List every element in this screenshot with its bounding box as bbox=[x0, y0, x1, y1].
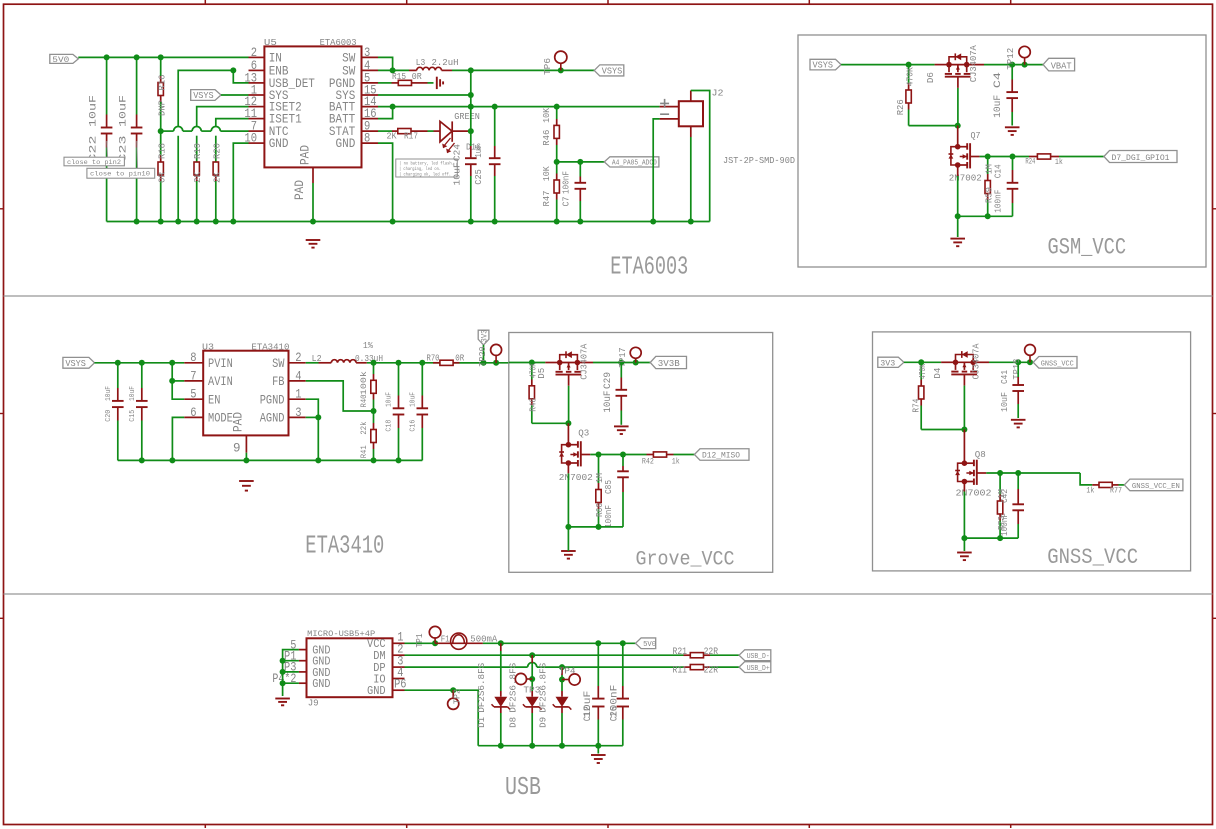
svg-text:10uF: 10uF bbox=[452, 162, 463, 186]
svg-text:3: 3 bbox=[295, 405, 301, 420]
inductor L3 bbox=[409, 67, 452, 70]
tvs diode D8 bbox=[523, 655, 542, 746]
svg-text:2.2uH: 2.2uH bbox=[432, 57, 459, 68]
net flag GNSS_VCC_EN bbox=[1124, 479, 1183, 491]
svg-text:Q8: Q8 bbox=[975, 449, 986, 460]
svg-text:100nF: 100nF bbox=[1000, 513, 1010, 536]
resistor R42 bbox=[647, 452, 695, 457]
svg-text:| no battery, led flash.: | no battery, led flash. bbox=[399, 160, 454, 166]
C7 name and value text bbox=[561, 171, 571, 207]
junction dots SW output node bbox=[371, 360, 426, 366]
LED D16 bbox=[434, 121, 471, 153]
R70 name and value text bbox=[427, 353, 465, 364]
R74 name and value text bbox=[911, 364, 928, 413]
svg-text:R20: R20 bbox=[212, 143, 222, 159]
net flag GNSS_VCC bbox=[1033, 357, 1077, 369]
svg-text:ETA3410: ETA3410 bbox=[251, 342, 289, 353]
svg-text:D5: D5 bbox=[537, 368, 547, 379]
capacitor C14 bbox=[1007, 157, 1019, 217]
wire Q3 source down bbox=[567, 463, 569, 527]
resistor R48 bbox=[529, 363, 534, 424]
svg-text:10uF: 10uF bbox=[1000, 392, 1010, 412]
svg-text:2K: 2K bbox=[212, 171, 222, 183]
R60 name and value text bbox=[595, 473, 605, 517]
svg-text:PAD: PAD bbox=[231, 412, 246, 432]
junction dot ADC divider node bbox=[554, 159, 560, 165]
svg-text:U3: U3 bbox=[202, 342, 214, 353]
U3 PAD stub and wire bbox=[245, 435, 247, 460]
C12 name and value text bbox=[582, 691, 594, 721]
wire L3 to VSYS node bbox=[452, 69, 471, 71]
C16 name and value text bbox=[409, 392, 417, 432]
svg-text:C85: C85 bbox=[604, 480, 614, 494]
svg-text:R17: R17 bbox=[404, 131, 418, 142]
svg-text:R70: R70 bbox=[427, 353, 440, 364]
svg-text:C42: C42 bbox=[1000, 489, 1010, 503]
svg-text:2K: 2K bbox=[387, 131, 397, 142]
svg-text:22k: 22k bbox=[360, 421, 369, 434]
wire Q3 source rail to gnd bbox=[567, 527, 569, 551]
capacitor C23 bbox=[131, 57, 143, 221]
wire R48 bottom to gate node bbox=[532, 422, 569, 424]
svg-text:GNSS_VCC_EN: GNSS_VCC_EN bbox=[1132, 483, 1180, 491]
C85 name and value text bbox=[604, 480, 614, 528]
R46 name and value text bbox=[542, 107, 552, 145]
svg-text:JST-2P-SMD-90D: JST-2P-SMD-90D bbox=[723, 155, 795, 166]
svg-text:TP20: TP20 bbox=[478, 347, 488, 367]
wire GND pin8 to rail bbox=[378, 143, 393, 221]
J9 right pin numbers bbox=[394, 631, 406, 692]
wire J2 minus to ground rail bbox=[653, 119, 659, 222]
junction dot R74 top bbox=[918, 359, 924, 365]
resistor R47 bbox=[554, 162, 559, 222]
junction dot DM at D8 bbox=[529, 652, 535, 658]
junction dot TP2 bbox=[450, 687, 456, 693]
wire D5 gate down to Q3 bbox=[565, 386, 571, 445]
svg-text:PAD: PAD bbox=[292, 180, 307, 200]
wire Q7 source down bbox=[957, 165, 959, 237]
wire FB to divider mid bbox=[306, 381, 377, 414]
svg-text:close to pin10: close to pin10 bbox=[90, 171, 150, 179]
ground symbol under U5 PAD bbox=[306, 239, 321, 241]
junction dot TP4 node bbox=[559, 677, 565, 683]
net flag VSYS input GSM bbox=[810, 59, 841, 70]
capacitor C24 bbox=[465, 70, 477, 221]
svg-text:100nF: 100nF bbox=[993, 190, 1003, 213]
capacitor C85 bbox=[617, 455, 629, 527]
svg-text:USB: USB bbox=[505, 772, 541, 802]
svg-text:2N7002: 2N7002 bbox=[956, 488, 992, 499]
connector J9 MICRO-USB body bbox=[307, 638, 393, 697]
svg-text:VSYS: VSYS bbox=[602, 66, 623, 76]
C41 name and value text bbox=[1000, 370, 1010, 412]
svg-text:D8: D8 bbox=[509, 717, 519, 728]
wire 3V3 to D4 source bbox=[904, 361, 941, 363]
capacitor C18 bbox=[393, 363, 405, 461]
resistor R60 bbox=[596, 455, 601, 527]
svg-text:10K: 10K bbox=[542, 107, 552, 123]
svg-text:100nF: 100nF bbox=[561, 171, 571, 194]
capacitor C12 bbox=[592, 643, 604, 745]
C25 name and value text bbox=[473, 144, 484, 184]
capacitor C20 bbox=[112, 363, 124, 461]
C18 name and value text bbox=[386, 392, 394, 432]
C29 name and value text bbox=[602, 372, 614, 413]
svg-text:1k: 1k bbox=[1086, 487, 1094, 496]
svg-text:F1: F1 bbox=[441, 635, 450, 645]
svg-text:R26: R26 bbox=[896, 99, 906, 115]
wire VSYS flag to SYS pin bbox=[221, 94, 249, 96]
net flag VSYS input mid bbox=[63, 357, 95, 369]
junction dots 3V3 node bbox=[481, 360, 500, 366]
frame column ticks bottom bbox=[205, 825, 1010, 829]
R11 name and value text bbox=[673, 666, 719, 677]
wire VSYS to PVIN bbox=[95, 362, 185, 364]
wire SW pin3 to SW pin4 net bbox=[378, 57, 396, 73]
svg-text:R18: R18 bbox=[157, 143, 167, 159]
svg-text:ETA6003: ETA6003 bbox=[610, 252, 688, 282]
svg-text:10uF: 10uF bbox=[992, 95, 1004, 118]
svg-text:A4_PA05_ADC0: A4_PA05_ADC0 bbox=[612, 159, 657, 167]
testpoint TP12 bbox=[1019, 46, 1030, 64]
C24 name and value text bbox=[452, 144, 463, 186]
svg-text:DF2S6.8FS: DF2S6.8FS bbox=[477, 663, 487, 713]
wire GND P6 to rail bbox=[405, 690, 479, 746]
resistor R40 feedback top bbox=[371, 363, 376, 411]
R15 name and value text bbox=[392, 71, 422, 82]
resistor R18 bbox=[158, 131, 163, 221]
C4 name and value text bbox=[992, 72, 1004, 118]
svg-text:TP2: TP2 bbox=[452, 689, 462, 704]
resistor R74 bbox=[919, 362, 924, 429]
wire R26 bottom to gate node bbox=[909, 125, 958, 127]
svg-text:Q3: Q3 bbox=[578, 427, 589, 438]
svg-text:CJ3407A: CJ3407A bbox=[580, 343, 590, 380]
svg-text:R40: R40 bbox=[360, 394, 369, 407]
svg-text:TP1: TP1 bbox=[415, 634, 425, 648]
R16 name and value text bbox=[157, 75, 167, 117]
U5 right pin names bbox=[329, 51, 356, 152]
svg-text:C7: C7 bbox=[561, 197, 571, 207]
ground under Q8 bbox=[957, 552, 972, 554]
svg-text:R19: R19 bbox=[193, 143, 203, 159]
capacitor C42 bbox=[1012, 473, 1024, 538]
net flag VBAT bbox=[1043, 58, 1075, 71]
J2 minus sign bbox=[660, 113, 669, 115]
mosfet Q8 2N7002 bbox=[964, 462, 974, 464]
R42 name and value text bbox=[642, 458, 680, 467]
wire gate row corner down to R77 bbox=[1080, 473, 1092, 485]
svg-text:DF2S6.8FS: DF2S6.8FS bbox=[539, 663, 549, 713]
svg-text:close to pin2: close to pin2 bbox=[67, 159, 121, 167]
section divider line 1 bbox=[4, 295, 1213, 297]
C26 name and value text bbox=[608, 685, 620, 721]
svg-text:C41: C41 bbox=[1000, 370, 1010, 384]
svg-text:2N7002: 2N7002 bbox=[559, 472, 593, 483]
wire BATT16 joins BATT14 bbox=[378, 104, 396, 119]
svg-text:2: 2 bbox=[295, 350, 301, 365]
svg-text:10K: 10K bbox=[542, 166, 552, 182]
J9 right pin stubs bbox=[393, 643, 405, 690]
svg-text:TP12: TP12 bbox=[1006, 48, 1016, 70]
svg-text:R47: R47 bbox=[542, 191, 552, 207]
svg-text:C16: C16 bbox=[409, 419, 417, 431]
J9 left pin stubs bbox=[299, 650, 307, 684]
LED behavior note box bbox=[396, 159, 458, 178]
wire 5V0 to pin IN bbox=[78, 56, 248, 58]
junction dots VBAT node bbox=[1009, 62, 1027, 68]
net flag D12_MISO bbox=[694, 449, 749, 461]
wire SYS15 to node bbox=[378, 92, 474, 98]
net flag VSYS at SYS pin bbox=[191, 90, 221, 102]
wire Q8 source down bbox=[963, 482, 965, 552]
mosfet Q7 2N7002 bbox=[958, 146, 968, 148]
GSM_VCC section box bbox=[798, 35, 1206, 267]
junction dots on BATT row bbox=[468, 104, 560, 110]
testpoint TP6 bbox=[555, 51, 567, 70]
svg-text:VBAT: VBAT bbox=[1051, 60, 1072, 71]
GNSS ground rail bbox=[961, 535, 1018, 541]
svg-text:FB: FB bbox=[272, 374, 285, 389]
U5 right pin numbers bbox=[364, 45, 377, 146]
svg-text:PGND: PGND bbox=[260, 392, 285, 407]
svg-text:7: 7 bbox=[190, 368, 196, 383]
J9 left pin names GND bbox=[312, 644, 330, 692]
ground under USB rail bbox=[591, 746, 606, 763]
wire 3V3 flag stem bbox=[483, 345, 485, 363]
C14 name and value text bbox=[993, 164, 1003, 212]
svg-text:100nF: 100nF bbox=[604, 505, 614, 528]
USB ground rail bbox=[478, 745, 623, 747]
svg-text:TP4: TP4 bbox=[559, 667, 576, 677]
wire MODE to ground rail bbox=[172, 417, 184, 460]
svg-text:DF2S6.8FS: DF2S6.8FS bbox=[509, 663, 519, 713]
svg-text:8: 8 bbox=[190, 350, 196, 365]
junction dots 3V3B node bbox=[618, 360, 638, 366]
svg-text:CJ3407A: CJ3407A bbox=[972, 343, 982, 380]
resistor R16 DNP bbox=[158, 57, 163, 131]
resistor R21 bbox=[684, 653, 740, 658]
junction dots on 5V0 rail bbox=[104, 54, 164, 60]
J2 plus sign bbox=[660, 99, 669, 108]
svg-text:CJ3407A: CJ3407A bbox=[969, 45, 979, 83]
svg-text:0R: 0R bbox=[157, 171, 167, 183]
svg-text:22R: 22R bbox=[704, 647, 719, 658]
resistor R11 bbox=[684, 665, 740, 670]
R73 name and value text bbox=[997, 489, 1007, 530]
ground under C29 bbox=[614, 425, 629, 427]
svg-text:D4: D4 bbox=[933, 368, 943, 379]
svg-text:0R: 0R bbox=[455, 353, 464, 364]
U3 left pin stubs bbox=[184, 363, 203, 418]
wire VSYS node to VSYS flag bbox=[471, 69, 594, 71]
svg-text:D12_MISO: D12_MISO bbox=[702, 452, 740, 461]
svg-text:SW: SW bbox=[272, 356, 285, 371]
svg-text:C25: C25 bbox=[473, 169, 484, 185]
svg-text:9: 9 bbox=[233, 442, 241, 456]
svg-text:C26: C26 bbox=[608, 706, 620, 721]
IC U3 ETA3410 body bbox=[203, 351, 288, 436]
R20 name and value text bbox=[212, 143, 222, 183]
U5 left pin names bbox=[269, 51, 316, 152]
svg-text:AGND: AGND bbox=[260, 411, 285, 426]
svg-text:2N7002: 2N7002 bbox=[949, 172, 982, 183]
resistor R77 bbox=[1092, 482, 1124, 487]
svg-text:3V3: 3V3 bbox=[880, 359, 895, 368]
L3 name and value text bbox=[416, 57, 459, 68]
svg-text:USB_D-: USB_D- bbox=[747, 653, 770, 661]
wire J9 ground column bbox=[280, 650, 299, 696]
J9 right pin names bbox=[367, 637, 386, 698]
junction dot TP6 bbox=[558, 67, 564, 73]
capacitor C41 bbox=[1012, 362, 1024, 418]
testpoint TP1 bbox=[429, 626, 441, 643]
resistor R24 bbox=[1029, 154, 1104, 159]
testpoint TP3 bbox=[515, 673, 532, 684]
U3 right pin names bbox=[260, 356, 285, 426]
svg-text:TP17: TP17 bbox=[618, 348, 628, 368]
svg-text:MODE: MODE bbox=[208, 411, 233, 426]
junction dot TP1 bbox=[432, 640, 438, 646]
battery connector J2 bbox=[679, 101, 703, 126]
wire D5 drain to 3V3B bbox=[593, 362, 650, 364]
svg-text:EN: EN bbox=[208, 392, 220, 407]
ground under Q3 bbox=[561, 550, 576, 552]
svg-text:R48: R48 bbox=[528, 398, 538, 412]
fuse F1 500mA bbox=[435, 633, 483, 649]
svg-text:R42: R42 bbox=[642, 458, 654, 467]
mosfet D4 CJ3407A bbox=[941, 351, 989, 386]
ground under C41 bbox=[1011, 419, 1026, 421]
svg-text:8: 8 bbox=[364, 131, 370, 146]
capacitor C22 bbox=[101, 57, 113, 221]
frame column ticks top bbox=[205, 0, 1010, 4]
svg-text:Q7: Q7 bbox=[971, 130, 981, 141]
resistor R73 bbox=[997, 473, 1002, 538]
J2 plus pin stub bbox=[660, 106, 679, 108]
wire R74 bottom to gate node bbox=[921, 429, 964, 431]
ground sideways at R15 bbox=[436, 77, 438, 89]
junction dots on VSYS mid rail bbox=[115, 360, 175, 366]
svg-text:L2: L2 bbox=[312, 353, 322, 364]
svg-text:| charging ok, led off.: | charging ok, led off. bbox=[399, 172, 451, 178]
R21 name and value text bbox=[673, 647, 719, 658]
mosfet D6 CJ3407A bbox=[935, 53, 984, 88]
svg-text:R46: R46 bbox=[542, 130, 552, 146]
resistor R15 bbox=[378, 80, 434, 85]
svg-text:GND: GND bbox=[269, 136, 289, 151]
svg-text:D6: D6 bbox=[926, 72, 936, 83]
svg-text:VSYS: VSYS bbox=[193, 91, 214, 101]
svg-text:R11: R11 bbox=[673, 666, 688, 677]
junction dot NTC node bbox=[158, 128, 164, 134]
svg-text:5V0: 5V0 bbox=[643, 641, 656, 649]
svg-text:R21: R21 bbox=[673, 647, 688, 658]
frame row ticks left bbox=[0, 209, 4, 619]
U5 right pin stubs bbox=[362, 57, 379, 143]
net flag VSYS output bbox=[594, 65, 624, 76]
resistor R46 bbox=[554, 107, 559, 162]
capacitor C29 bbox=[616, 363, 628, 425]
svg-text:C12: C12 bbox=[582, 706, 594, 721]
R18 name and value text bbox=[157, 143, 167, 183]
wire F1 to 5V0 flag bbox=[483, 642, 636, 644]
U3 right pin numbers bbox=[295, 350, 301, 420]
wire Q8 gate row bbox=[986, 470, 1080, 476]
wire Q3 gate row bbox=[590, 452, 646, 458]
inductor L2 bbox=[319, 360, 367, 363]
junction dot DP at D9 bbox=[559, 664, 565, 670]
svg-text:R74: R74 bbox=[911, 399, 921, 413]
R47 name and value text bbox=[542, 166, 552, 207]
R24 name and value text bbox=[1025, 157, 1063, 167]
U3 refdes and value bbox=[202, 342, 290, 353]
svg-text:3V3: 3V3 bbox=[480, 329, 489, 342]
C23 value and name text bbox=[117, 95, 129, 163]
U3 left pin numbers bbox=[190, 350, 196, 420]
U5 refdes and value bbox=[264, 37, 357, 48]
IC U5 ETA6003 body bbox=[264, 46, 361, 167]
svg-text:Grove_VCC: Grove_VCC bbox=[636, 548, 735, 571]
svg-text:C4: C4 bbox=[992, 72, 1004, 88]
svg-text:1uF: 1uF bbox=[473, 144, 484, 157]
svg-text:ETA6003: ETA6003 bbox=[320, 37, 357, 48]
resistor R20 bbox=[213, 119, 248, 222]
net flag A4_PA05_ADC0 bbox=[604, 157, 659, 167]
net flag USB_D- bbox=[739, 650, 771, 661]
R40 name and value text bbox=[360, 371, 369, 408]
resistor R26 bbox=[906, 65, 911, 126]
svg-text:C20: C20 bbox=[105, 409, 113, 421]
wire 3V3 into Grove box bbox=[509, 362, 546, 364]
svg-text:470K: 470K bbox=[918, 364, 928, 379]
svg-text:100k: 100k bbox=[360, 371, 369, 395]
svg-text:1: 1 bbox=[295, 387, 301, 402]
svg-text:DNP: DNP bbox=[157, 100, 167, 116]
svg-text:C14: C14 bbox=[993, 164, 1003, 178]
mosfet D5 CJ3407A bbox=[545, 351, 593, 386]
svg-text:22R: 22R bbox=[704, 666, 719, 677]
wire BATT14 row bbox=[378, 106, 660, 108]
power flag 5V0 bbox=[50, 54, 79, 65]
svg-text:470K: 470K bbox=[906, 67, 916, 87]
wire divider node to C7 and label bbox=[557, 159, 605, 165]
capacitor C4 bbox=[1006, 65, 1018, 126]
svg-text:MICRO-USB5+4P: MICRO-USB5+4P bbox=[307, 630, 375, 639]
svg-text:10uF: 10uF bbox=[87, 95, 99, 127]
Grove ground rail bbox=[565, 524, 623, 530]
U3 left pin names bbox=[208, 356, 233, 426]
svg-text:4: 4 bbox=[295, 368, 301, 383]
capacitor C25 bbox=[489, 107, 501, 222]
svg-text:U5: U5 bbox=[264, 37, 277, 48]
svg-text:2K: 2K bbox=[193, 171, 203, 183]
wire VSYS to D6 source bbox=[841, 64, 935, 66]
wire R70 to 3V3 node bbox=[460, 362, 509, 364]
wire D4 gate down to Q8 bbox=[961, 386, 967, 464]
wire NTC row with hops bbox=[161, 127, 249, 132]
R17 name and value text bbox=[387, 131, 419, 142]
testpoint TP2 bbox=[448, 690, 459, 709]
svg-text:C29: C29 bbox=[602, 372, 614, 389]
L2 name and value text bbox=[312, 353, 383, 364]
C15 name and value text bbox=[129, 386, 137, 422]
svg-text:L3: L3 bbox=[416, 57, 426, 68]
svg-text:C15: C15 bbox=[129, 409, 137, 421]
svg-text:10uF: 10uF bbox=[117, 95, 129, 127]
svg-text:R24: R24 bbox=[1025, 157, 1035, 166]
svg-text:10uF: 10uF bbox=[602, 391, 614, 413]
